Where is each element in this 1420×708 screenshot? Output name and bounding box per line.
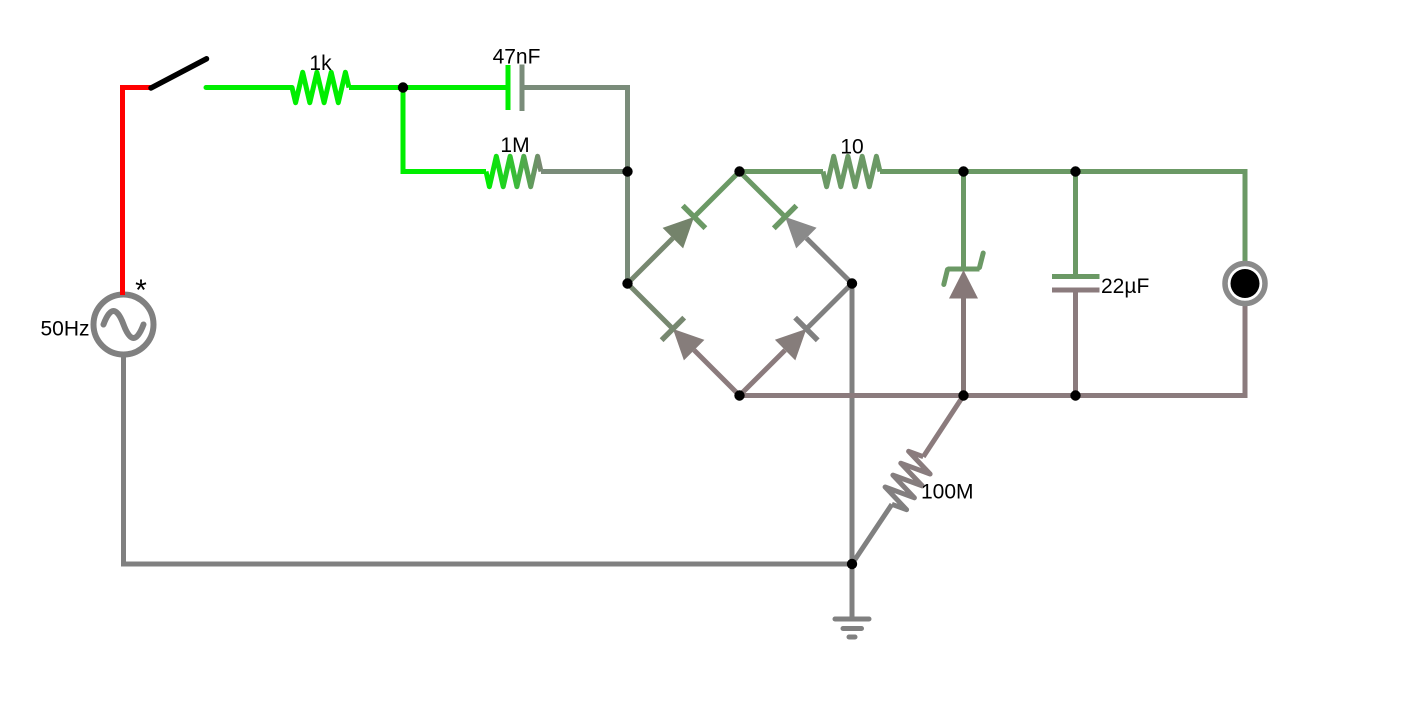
svg-text:10: 10 — [840, 136, 863, 159]
diode D4 cathode bar — [795, 318, 818, 341]
capacitor C1 47nF right plate — [520, 65, 525, 112]
diode D3 cathode lead — [628, 284, 673, 329]
wire olive R2 to node B — [541, 169, 628, 174]
diode D3 cathode bar — [662, 318, 685, 341]
wire green switch to R 1k — [206, 85, 292, 90]
node D — [1070, 166, 1080, 176]
node ground — [847, 559, 857, 569]
node bridge left — [622, 278, 632, 288]
diode D4 cathode lead — [806, 284, 852, 329]
zener diode DZ cathode bar — [948, 267, 980, 272]
wire sage node D to C2 — [1073, 172, 1078, 277]
ground stem — [850, 564, 855, 619]
svg-text:47nF: 47nF — [493, 46, 541, 69]
resistor R2 1M — [486, 156, 541, 186]
node A — [398, 82, 408, 92]
wire taupe zener to bottom rail — [961, 297, 966, 396]
wire red source top to switch — [123, 88, 151, 296]
output terminal ring — [1225, 264, 1265, 304]
resistor R4 100M lead top — [923, 396, 963, 457]
resistor R4 100M zigzag — [885, 451, 930, 509]
svg-text:1M: 1M — [500, 134, 529, 157]
ground bar 1 — [835, 617, 869, 622]
wire gray source bottom — [124, 355, 853, 565]
wire taupe bottom rail and output bottom — [740, 305, 1246, 396]
zener diode DZ right wing — [980, 253, 984, 268]
node bridge bottom — [734, 390, 744, 400]
wire sage bridge top to R3 — [740, 169, 824, 174]
zener diode DZ triangle — [949, 270, 978, 299]
resistor R4 100M lead bottom — [852, 504, 892, 564]
output terminal dot — [1231, 269, 1260, 298]
switch S1 open lever — [151, 59, 207, 88]
diode D1 cathode lead — [694, 172, 739, 217]
wire sage R3 to top right corner and down to output — [880, 172, 1245, 263]
svg-text:50Hz: 50Hz — [40, 318, 89, 341]
svg-text:22µF: 22µF — [1101, 275, 1149, 298]
wire green node A down to R2 — [403, 88, 486, 172]
wire gray bridge right corner down to ground node — [850, 284, 855, 565]
svg-text:*: * — [135, 274, 147, 307]
capacitor C2 22uF top plate — [1052, 274, 1100, 279]
diode D2 cathode lead — [740, 172, 786, 217]
AC source V1 50Hz — [94, 295, 154, 355]
ground bar 2 — [843, 626, 862, 631]
wire taupe C2 to bottom rail — [1073, 290, 1078, 396]
capacitor C2 22uF bottom plate — [1052, 288, 1100, 293]
diode D2 anode lead — [806, 238, 852, 283]
resistor R3 10 — [823, 156, 880, 186]
diode D4 anode lead — [740, 350, 786, 395]
node C — [958, 166, 968, 176]
ground bar 3 — [849, 635, 855, 640]
diode D3 triangle — [673, 329, 705, 361]
node B — [622, 166, 632, 176]
resistor R1 1k — [292, 72, 349, 102]
node bridge top — [734, 166, 744, 176]
node F — [1070, 390, 1080, 400]
wire green R1 to node A — [349, 85, 506, 90]
diode D1 triangle — [663, 217, 695, 249]
diode D1 cathode bar — [683, 206, 706, 229]
capacitor C1 47nF left plate — [506, 65, 511, 110]
diode D1 anode lead — [628, 238, 673, 283]
wire sage node C to zener — [961, 172, 966, 268]
svg-text:1k: 1k — [309, 52, 332, 75]
node E — [958, 390, 968, 400]
diode D2 triangle — [785, 217, 817, 249]
diode D2 cathode bar — [774, 206, 797, 229]
diode D3 anode lead — [694, 350, 739, 395]
zener diode DZ left wing — [944, 270, 948, 285]
wire olive C1 to node B — [525, 88, 628, 284]
diode D4 triangle — [775, 329, 807, 361]
node bridge right — [847, 278, 857, 288]
svg-text:100M: 100M — [921, 481, 974, 504]
